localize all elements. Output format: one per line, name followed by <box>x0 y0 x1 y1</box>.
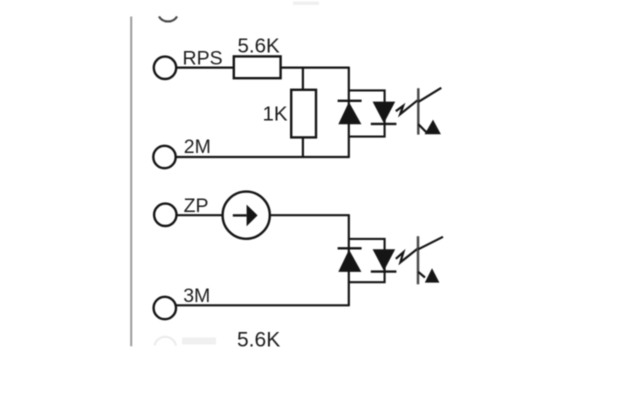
wire resistor R2 to 2M wire <box>302 137 304 157</box>
resistor R2 1K <box>291 90 316 138</box>
LED D3 (up) of opto U2 <box>338 248 362 272</box>
phototransistor Q1 of opto U1 <box>418 88 441 135</box>
svg-text:5.6K: 5.6K <box>237 329 280 352</box>
svg-text:5.6K: 5.6K <box>238 35 280 58</box>
wire ZP to current source <box>177 214 223 216</box>
current source CS1 <box>223 192 270 239</box>
faded terminal (cut off at top) <box>159 17 177 22</box>
phototransistor Q2 of opto U2 <box>418 236 443 284</box>
svg-text:ZP: ZP <box>184 195 209 217</box>
svg-text:1K: 1K <box>263 103 288 126</box>
label RPS <box>183 48 223 70</box>
opto U1 input loop wires <box>349 90 385 136</box>
svg-text:RPS: RPS <box>183 48 223 70</box>
svg-text:2M: 2M <box>184 136 211 158</box>
wire RPS to resistor R1 <box>176 66 234 68</box>
svg-text:3M: 3M <box>183 285 210 307</box>
wire opto U2 left rail <box>348 215 350 305</box>
wire current source to opto U2 <box>270 214 350 216</box>
wire resistor R1 to opto U1 <box>281 66 350 68</box>
LED D1 (up) of opto U1 <box>338 101 362 125</box>
LED D4 (down) of opto U2 <box>371 249 397 271</box>
opto U2 input loop wires <box>349 239 385 282</box>
light arrows opto U1 <box>396 100 418 114</box>
value label 1K <box>263 103 288 126</box>
LED D2 (down) of opto U1 <box>371 102 397 124</box>
label ZP <box>184 195 209 217</box>
value label 5.6K <box>238 35 280 58</box>
terminal 2M <box>153 146 175 168</box>
resistor R1 5.6K <box>234 56 281 78</box>
label 2M <box>184 136 211 158</box>
wire 2M to opto U1 <box>176 156 350 158</box>
wire opto U1 left rail <box>348 68 350 157</box>
light arrows opto U2 <box>396 249 418 262</box>
terminal ZP <box>154 204 176 226</box>
label 3M <box>183 285 210 307</box>
terminal 3M <box>154 297 176 319</box>
faded terminal and label (next row, cut off) <box>155 337 217 346</box>
faded wire stub (top right) <box>293 2 319 6</box>
wire 3M to opto U2 <box>176 304 350 306</box>
value label 5.6K (next row, cut off) <box>237 329 280 352</box>
wire junction down to resistor R2 <box>302 68 304 90</box>
terminal RPS <box>154 57 176 79</box>
